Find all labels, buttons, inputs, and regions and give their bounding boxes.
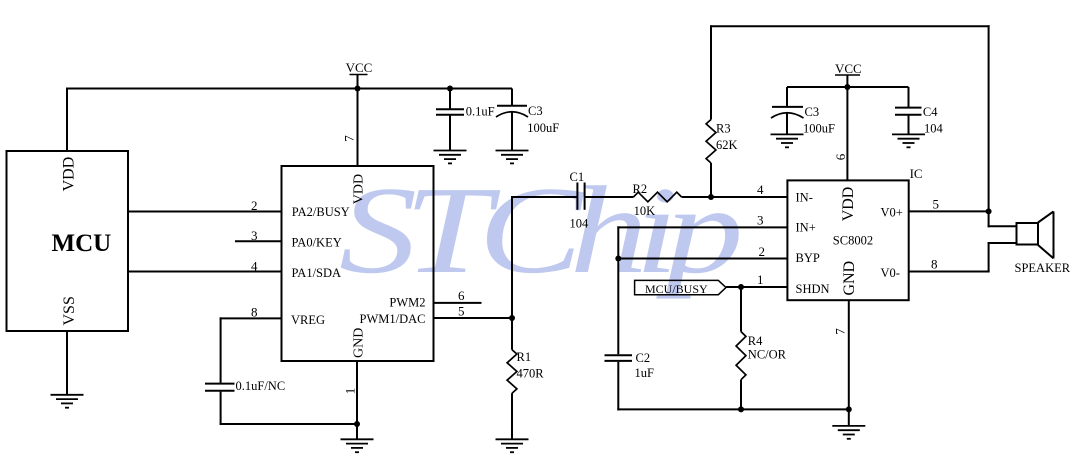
svg-text:R1: R1 xyxy=(517,350,532,364)
svg-text:4: 4 xyxy=(251,258,258,273)
svg-text:VREG: VREG xyxy=(291,313,325,327)
svg-text:PA0/KEY: PA0/KEY xyxy=(292,236,342,250)
svg-text:VCC: VCC xyxy=(835,61,862,76)
svg-text:104: 104 xyxy=(570,217,590,231)
svg-text:PA2/BUSY: PA2/BUSY xyxy=(292,205,350,219)
svg-text:R2: R2 xyxy=(633,182,648,196)
svg-text:8: 8 xyxy=(931,256,938,271)
svg-text:IC: IC xyxy=(910,166,923,181)
svg-text:2: 2 xyxy=(251,198,258,213)
svg-text:VDD: VDD xyxy=(352,174,367,204)
svg-text:PA1/SDA: PA1/SDA xyxy=(292,266,342,280)
svg-text:C1: C1 xyxy=(570,170,585,184)
svg-text:6: 6 xyxy=(458,288,465,303)
svg-text:C3: C3 xyxy=(805,105,820,119)
svg-text:BYP: BYP xyxy=(796,251,820,265)
svg-text:470R: 470R xyxy=(517,366,545,380)
svg-text:GND: GND xyxy=(841,261,858,296)
svg-text:VDD: VDD xyxy=(61,157,78,192)
svg-text:R3: R3 xyxy=(716,122,731,136)
svg-text:VDD: VDD xyxy=(840,187,857,222)
svg-text:GND: GND xyxy=(352,328,367,358)
svg-text:C2: C2 xyxy=(636,351,651,365)
svg-text:1: 1 xyxy=(342,388,357,395)
svg-text:0.1uF: 0.1uF xyxy=(466,104,495,118)
svg-text:R4: R4 xyxy=(748,334,763,348)
svg-text:7: 7 xyxy=(342,135,357,142)
svg-text:1: 1 xyxy=(757,272,764,287)
svg-text:2: 2 xyxy=(759,244,766,259)
svg-text:100uF: 100uF xyxy=(527,121,559,135)
svg-text:IN+: IN+ xyxy=(796,220,816,234)
svg-text:C4: C4 xyxy=(923,105,938,119)
svg-text:104: 104 xyxy=(924,122,944,136)
svg-text:NC/OR: NC/OR xyxy=(748,348,787,362)
svg-text:STChip: STChip xyxy=(339,161,739,300)
svg-text:IN-: IN- xyxy=(796,190,813,204)
svg-text:100uF: 100uF xyxy=(803,122,835,136)
svg-text:V0+: V0+ xyxy=(881,206,903,220)
svg-text:4: 4 xyxy=(757,182,764,197)
svg-text:SPEAKER: SPEAKER xyxy=(1015,261,1071,275)
svg-text:SC8002: SC8002 xyxy=(833,234,873,248)
svg-text:VCC: VCC xyxy=(346,60,373,75)
svg-text:5: 5 xyxy=(933,197,940,212)
svg-text:5: 5 xyxy=(458,303,465,318)
svg-text:VSS: VSS xyxy=(61,296,78,325)
svg-text:C3: C3 xyxy=(528,104,543,118)
svg-text:0.1uF/NC: 0.1uF/NC xyxy=(236,379,286,393)
svg-text:6: 6 xyxy=(833,153,848,160)
svg-text:62K: 62K xyxy=(716,138,738,152)
svg-text:PWM1/DAC: PWM1/DAC xyxy=(360,312,426,326)
svg-text:PWM2: PWM2 xyxy=(389,295,425,309)
svg-text:SHDN: SHDN xyxy=(796,282,830,296)
svg-text:3: 3 xyxy=(251,228,258,243)
svg-text:MCU: MCU xyxy=(52,230,112,257)
svg-text:3: 3 xyxy=(757,213,764,228)
svg-text:MCU/BUSY: MCU/BUSY xyxy=(645,282,708,296)
svg-text:V0-: V0- xyxy=(881,266,900,280)
svg-text:8: 8 xyxy=(251,305,258,320)
svg-text:10K: 10K xyxy=(634,204,656,218)
svg-text:1uF: 1uF xyxy=(635,366,655,380)
svg-text:7: 7 xyxy=(833,328,848,335)
